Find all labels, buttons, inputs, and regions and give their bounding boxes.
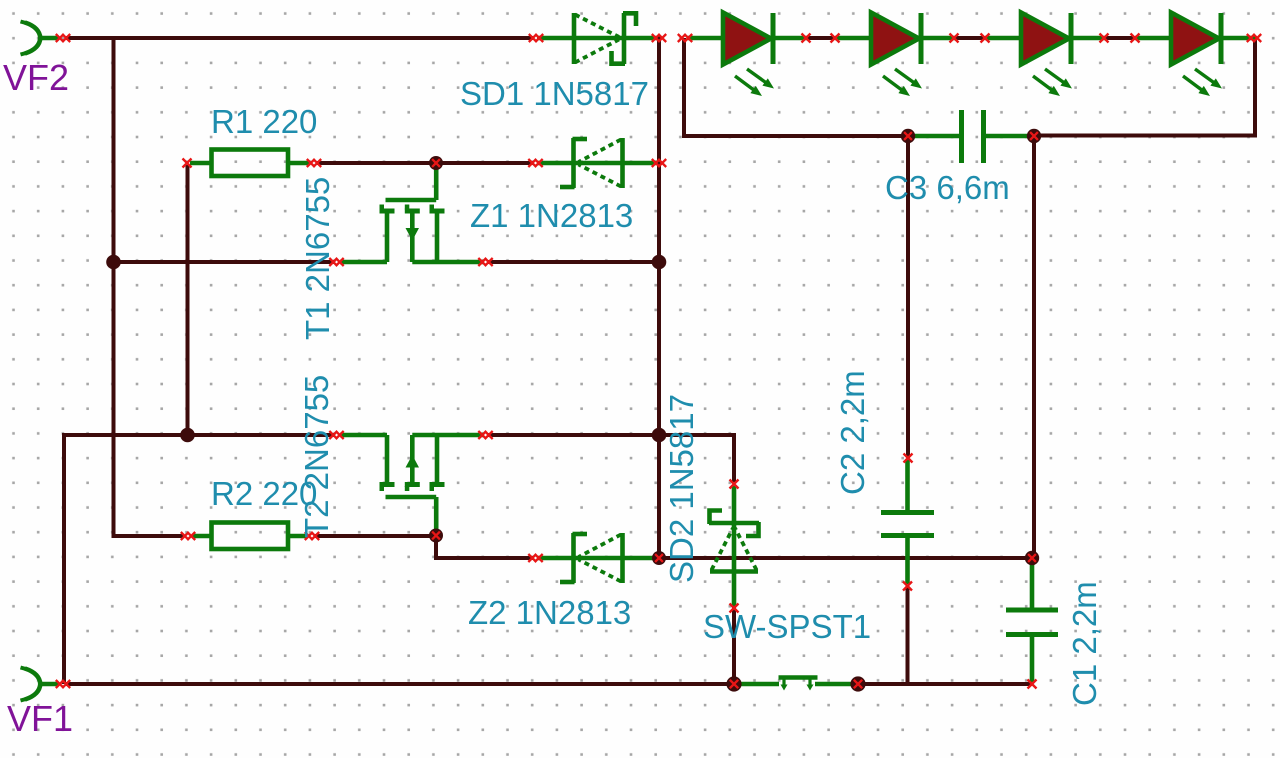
resistor R2 body — [192, 523, 307, 550]
pin LED4 cathode — [1247, 34, 1261, 42]
wire R1 right to T1 gate node to Z1 — [317, 161, 533, 165]
pin Z1 right — [652, 159, 666, 167]
pin C1 bottom — [1028, 680, 1037, 689]
pin C2 top — [904, 454, 913, 463]
svg-text:C3 6,6m: C3 6,6m — [885, 169, 1010, 206]
wire SD2 anode to bottom rail — [732, 606, 736, 684]
node switch right pin — [850, 676, 865, 691]
svg-text:T2 2N6755: T2 2N6755 — [298, 375, 335, 538]
svg-text:Z1 1N2813: Z1 1N2813 — [470, 197, 633, 234]
diode SD1 wire — [537, 36, 657, 41]
terminal VF2 connector — [21, 22, 60, 55]
wire T1 drain to bus — [488, 260, 659, 264]
pin LED3 anode — [981, 34, 990, 43]
capacitor C3 plates — [910, 110, 1031, 163]
node switch left pin — [726, 676, 741, 691]
svg-text:VF1: VF1 — [7, 698, 73, 739]
wire LED3-LED4 link — [1104, 36, 1135, 40]
pin R1 left — [183, 159, 192, 168]
pin T2 drain — [478, 431, 492, 439]
transistor T1 2N6755 — [340, 165, 483, 262]
wire Z2 right to C1 top node — [659, 556, 1032, 560]
label R2 — [211, 475, 317, 512]
capacitor C1 plates — [1006, 560, 1058, 682]
svg-text:R1 220: R1 220 — [211, 103, 317, 140]
wire top rail VF2 to SD1 anode — [66, 36, 533, 40]
pin Z2 left — [528, 554, 542, 562]
label Z1 — [470, 197, 633, 234]
label C1 — [1066, 581, 1103, 706]
label R1 — [211, 103, 317, 140]
svg-text:SD2 1N5817: SD2 1N5817 — [663, 394, 700, 583]
diode SD2 triangle — [710, 528, 758, 572]
node T2 drain / bus junction — [652, 428, 667, 443]
label T1 — [299, 177, 336, 340]
pin SD1 anode — [529, 34, 543, 42]
wire R2 right to T2 gate node — [315, 534, 436, 538]
svg-text:SW-SPST1: SW-SPST1 — [703, 608, 871, 645]
wire C2 bottom to rail — [906, 586, 910, 684]
label SW-SPST1 — [703, 608, 871, 645]
node T2 gate junction — [429, 529, 443, 543]
pin LED2 cathode — [950, 34, 959, 43]
node T1 gate junction — [429, 156, 443, 170]
wire R1 left pin down to node — [186, 165, 190, 435]
svg-text:VF2: VF2 — [3, 57, 69, 98]
pin C2 bottom — [903, 582, 912, 591]
wire LED4 cathode down to C3 right — [1036, 36, 1255, 136]
wire C3 left down to C2 top — [906, 136, 910, 458]
svg-text:C2 2,2m: C2 2,2m — [834, 370, 871, 495]
label T2 — [298, 375, 335, 538]
LED D2 — [835, 13, 955, 97]
diode SD1 triangle edges — [575, 15, 619, 63]
label SD1 — [460, 75, 649, 112]
LED D1 — [687, 13, 807, 97]
wire LED1 anode down-left to C3 left — [684, 38, 906, 136]
terminal VF1 connector — [21, 668, 60, 701]
node C3 left pin — [901, 129, 915, 143]
diode Z2 zener bar — [560, 533, 587, 583]
svg-text:T1 2N6755: T1 2N6755 — [299, 177, 336, 340]
LED D4 — [1135, 13, 1255, 97]
wire bottom rail right — [858, 682, 1032, 686]
wire gate node down to Z2 left — [436, 536, 533, 558]
diode SD1 schottky bar — [612, 13, 637, 64]
label C3 — [885, 169, 1010, 206]
svg-text:C1 2,2m: C1 2,2m — [1066, 581, 1103, 706]
wire T1 source row — [114, 260, 335, 264]
diode SD1 anode bar — [572, 13, 577, 64]
node C3 right pin — [1027, 129, 1041, 143]
pin Z1 left — [528, 159, 542, 167]
wire C3 right down to C1 node — [1032, 136, 1036, 558]
pin LED3 cathode — [1100, 34, 1109, 43]
diode Z2 wire — [538, 556, 657, 561]
node T1 drain / bus junction — [652, 255, 667, 270]
pin LED1 anode — [678, 34, 692, 42]
diode Z2 triangle — [579, 533, 623, 583]
pin VF1 — [56, 680, 70, 688]
pin T2 source — [329, 431, 343, 439]
pin SD1 cathode — [652, 34, 666, 42]
wire left bus x113 from top rail to R2 row — [114, 36, 184, 536]
svg-text:Z2 1N2813: Z2 1N2813 — [468, 594, 631, 631]
diode Z1 triangle — [579, 138, 623, 188]
node left-bus / T1 source junction — [106, 255, 121, 270]
label SD2 — [663, 394, 700, 583]
label VF1 — [7, 698, 73, 739]
svg-text:SD1 1N5817: SD1 1N5817 — [460, 75, 649, 112]
pin T1 source — [329, 258, 343, 266]
pin R1 right — [307, 159, 321, 167]
pin VF2 — [56, 34, 70, 42]
diode Z1 wire — [538, 161, 657, 166]
wire SD1 cathode bus vertical x659 — [657, 36, 661, 558]
pin T1 drain — [478, 258, 492, 266]
wire LED1-LED2 link — [806, 36, 835, 40]
wire bus to SD2 cathode — [659, 435, 734, 482]
resistor R1 body — [190, 150, 309, 177]
pin LED4 anode — [1131, 34, 1140, 43]
capacitor C2 plates — [881, 460, 934, 584]
transistor T2 2N6755 — [340, 435, 483, 532]
pin LED1 cathode — [802, 34, 811, 43]
label C2 — [834, 370, 871, 495]
diode SD2 wire — [732, 486, 737, 606]
label VF2 — [3, 57, 69, 98]
node C1 top pin — [1025, 551, 1039, 565]
wire bottom rail left — [66, 682, 734, 686]
node Z2 right / bus junction — [652, 551, 666, 565]
switch SW-SPST1 blade — [736, 677, 856, 691]
label Z2 — [468, 594, 631, 631]
node R1-drop / source-row junction — [180, 428, 195, 443]
pin R2 right — [305, 532, 319, 540]
wire T2 drain to bus — [488, 433, 659, 437]
pin R2 left — [181, 532, 195, 540]
LED D3 — [985, 13, 1105, 97]
pin LED2 anode — [831, 34, 840, 43]
wire source row y435 from left corner — [64, 435, 334, 684]
diode SD2 schottky bar — [709, 511, 759, 537]
pin SD2 cathode — [730, 480, 739, 489]
diode Z1 zener bar — [560, 138, 587, 188]
pin SD2 anode — [730, 604, 739, 613]
wire LED2-LED3 link — [954, 36, 985, 40]
